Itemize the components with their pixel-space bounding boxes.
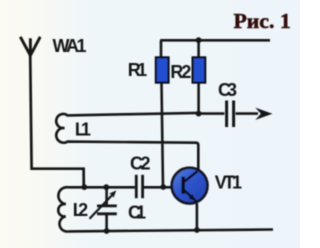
svg-text:VT1: VT1	[215, 172, 242, 192]
svg-text:R2: R2	[170, 62, 191, 82]
svg-text:L2: L2	[73, 200, 89, 220]
svg-text:R1: R1	[128, 60, 148, 80]
svg-text:WA1: WA1	[53, 36, 87, 56]
svg-text:C2: C2	[130, 154, 151, 174]
svg-text:Рис. 1: Рис. 1	[234, 9, 291, 33]
svg-text:C3: C3	[218, 80, 237, 100]
svg-text:L1: L1	[75, 119, 91, 139]
svg-text:C1: C1	[128, 203, 146, 223]
